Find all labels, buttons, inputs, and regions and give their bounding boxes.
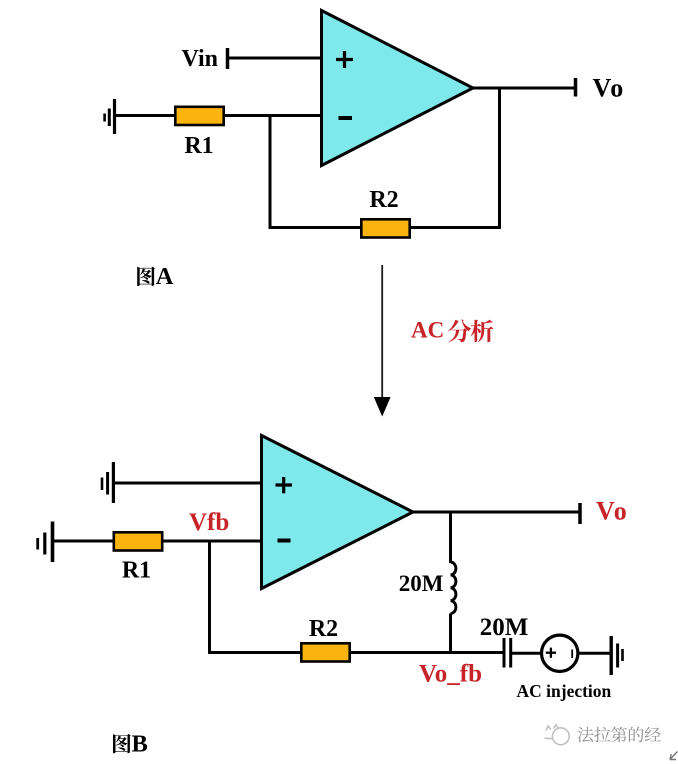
wire R1 to inverting input: [163, 540, 263, 543]
svg-text:20M: 20M: [480, 614, 529, 641]
inductor 20M wire upper: [449, 512, 452, 563]
resistor R2 (circuit A): [361, 219, 409, 237]
svg-text:R1: R1: [122, 558, 151, 584]
wire Vin to non-inverting input: [229, 57, 323, 60]
resistor R1 (circuit B): [114, 532, 162, 550]
watermark logo cat: [545, 725, 570, 745]
inductor wire lower: [449, 614, 452, 655]
resistor R2 (circuit B): [301, 643, 349, 661]
AC injection source V1: [542, 635, 578, 671]
wire AC source to ground: [578, 652, 610, 655]
plus marking U1: [336, 51, 353, 68]
wire ground GA to R1: [116, 114, 174, 117]
wire output A: [473, 87, 574, 90]
inductor 20M coil: [451, 562, 456, 614]
svg-text:Vfb: Vfb: [189, 509, 229, 536]
wire node to feedback (vertical from inverting wire): [269, 116, 272, 230]
svg-text:AC injection: AC injection: [517, 681, 612, 701]
wire output B: [413, 511, 579, 514]
ground GB2 (R1 input ground): [38, 522, 53, 563]
wire bottom left to R2: [269, 226, 362, 229]
svg-text:R2: R2: [369, 187, 398, 213]
terminal Vo (circuit B): [578, 503, 582, 524]
svg-text:A: A: [156, 263, 174, 290]
svg-text:Vo: Vo: [596, 497, 628, 526]
capacitor 20M plates: [504, 638, 511, 668]
wire R2 to output node: [410, 226, 501, 229]
wire capacitor to AC source: [512, 652, 542, 655]
wire R2 to Vo_fb node: [350, 651, 503, 654]
svg-text:Vo: Vo: [593, 74, 625, 103]
ground GB3 (right of AC source): [611, 636, 622, 675]
wire bottom to R2 (circuit B): [208, 651, 301, 654]
watermark text 法拉第的经: [578, 727, 661, 743]
minus tick marking source: [571, 650, 573, 659]
svg-text:R2: R2: [309, 616, 338, 642]
svg-text:20M: 20M: [399, 571, 444, 596]
wire ground GB2 to R1: [54, 540, 113, 543]
corner cursor mark: [670, 752, 678, 760]
svg-text:Vo_fb: Vo_fb: [419, 661, 482, 688]
arrow AC analysis: [381, 265, 383, 398]
svg-text:AC: AC: [411, 318, 444, 343]
minus marking U1B: [278, 539, 291, 543]
wire feedback vertical to output: [498, 87, 501, 230]
terminal Vo (circuit A): [574, 78, 578, 97]
plus marking U1B: [276, 477, 293, 493]
wire ground GB1 to non-inverting input: [115, 482, 263, 485]
svg-text:R1: R1: [184, 133, 213, 159]
wire Vfb node down to R2 row: [208, 541, 211, 654]
ground GA (circuit A input ground): [105, 99, 115, 134]
op-amp U1 (circuit A): [322, 11, 474, 166]
resistor R1 (circuit A): [175, 107, 223, 125]
svg-text:B: B: [132, 731, 148, 758]
terminal Vin: [226, 48, 230, 69]
svg-text:Vin: Vin: [182, 46, 218, 72]
label 图B: [113, 734, 131, 753]
plus marking source: [546, 648, 556, 658]
wire R1 to inverting input: [225, 114, 323, 117]
op-amp U1 (circuit B): [262, 436, 414, 589]
minus marking U1: [339, 116, 353, 120]
ground GB1 (non-inverting input ground): [102, 462, 113, 503]
label 图A: [137, 267, 155, 286]
